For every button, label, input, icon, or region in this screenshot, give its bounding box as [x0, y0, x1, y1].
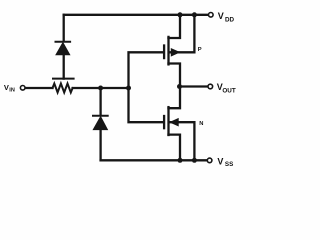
resistor R1	[53, 84, 73, 93]
junction node B gate tee	[126, 86, 131, 91]
svg-text:IN: IN	[9, 88, 15, 94]
junction NMOS source on VSS rail	[178, 158, 183, 163]
svg-text:V: V	[218, 11, 224, 21]
junction PMOS drain on VDD rail	[178, 12, 183, 17]
svg-text:SS: SS	[225, 161, 233, 168]
wire PMOS gate	[129, 52, 163, 88]
terminal VDD	[209, 13, 214, 18]
terminal VIN	[20, 86, 25, 91]
svg-text:N: N	[199, 121, 203, 127]
svg-text:V: V	[4, 83, 9, 92]
wire VSS rail	[101, 159, 207, 161]
junction PMOS bulk on VDD rail	[192, 12, 197, 17]
svg-text:V: V	[217, 156, 223, 166]
diode D1 distributed anode plate	[53, 78, 74, 80]
junction NMOS bulk on VSS rail	[192, 158, 197, 163]
terminal VSS	[207, 158, 212, 163]
transistor Q2 NMOS	[164, 87, 194, 161]
diode D1	[56, 42, 71, 79]
junction node A diode D2 tap	[98, 86, 103, 91]
junction VOUT node	[177, 84, 182, 89]
wire VDD rail	[64, 14, 208, 16]
transistor Q1 PMOS	[164, 15, 194, 87]
svg-text:P: P	[198, 47, 202, 53]
svg-text:DD: DD	[225, 16, 235, 23]
wire NMOS gate	[129, 88, 163, 122]
wire input node	[73, 87, 129, 89]
wire D1 cathode lead	[63, 15, 65, 41]
diode D2	[93, 116, 108, 161]
diode D2 cathode lead	[99, 88, 101, 115]
svg-text:OUT: OUT	[222, 88, 235, 95]
wire VIN to resistor	[25, 87, 52, 89]
wire VOUT	[180, 85, 208, 87]
terminal VOUT	[208, 84, 213, 89]
